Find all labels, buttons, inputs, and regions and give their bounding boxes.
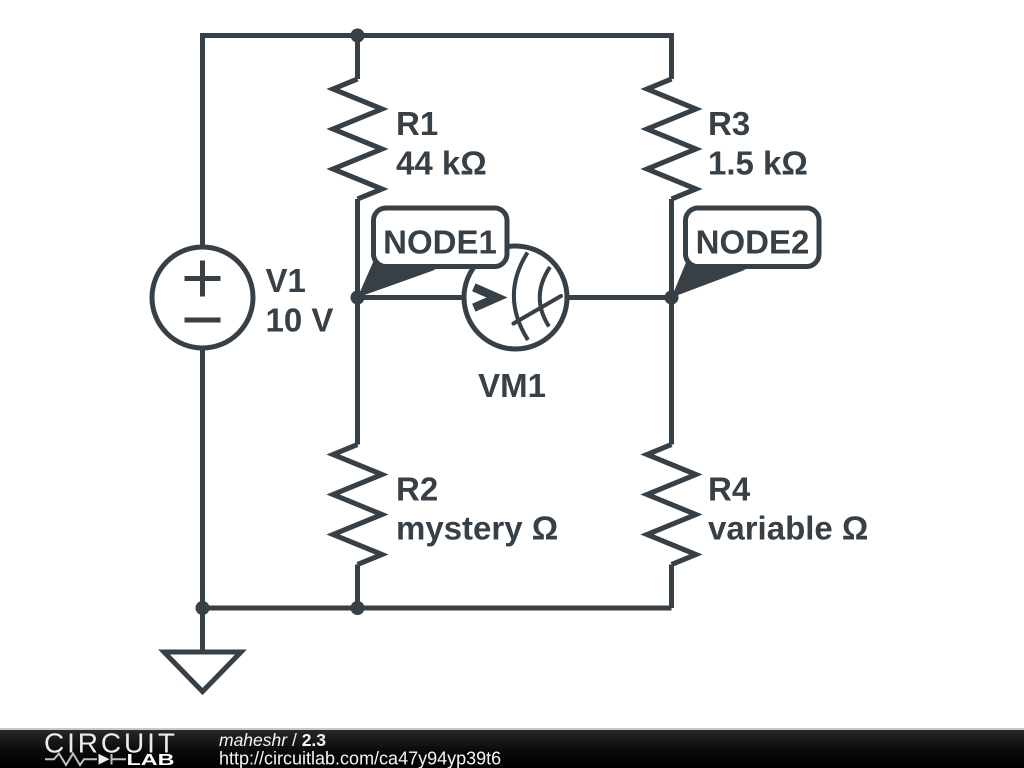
- voltmeter VM1: [464, 246, 567, 349]
- wire R1 top lead: [355, 33, 360, 79]
- svg-text:LAB: LAB: [127, 752, 175, 768]
- svg-text:http://circuitlab.com/ca47y94y: http://circuitlab.com/ca47y94yp39t6: [219, 748, 501, 768]
- wire top rail: [203, 33, 672, 38]
- svg-text:R2: R2: [396, 471, 438, 508]
- wire R3 top lead: [669, 33, 674, 79]
- node junction dot top: [351, 29, 365, 43]
- svg-text:R3: R3: [708, 105, 750, 142]
- CircuitLab logo resistor-diode glyph: [45, 754, 126, 766]
- svg-text:R1: R1: [396, 105, 438, 142]
- svg-text:mystery Ω: mystery Ω: [396, 510, 558, 547]
- wire bottom rail: [200, 606, 672, 611]
- resistor R4: [647, 445, 696, 565]
- wire R1 bottom lead: [355, 199, 360, 298]
- ground: [164, 652, 241, 692]
- svg-text:10 V: 10 V: [266, 302, 334, 339]
- node NODE2 flag: [672, 208, 820, 298]
- wire node1 to voltmeter: [358, 295, 467, 300]
- resistor R2: [333, 445, 382, 565]
- node NODE1 flag: [358, 208, 508, 298]
- wire R4 top lead: [669, 298, 674, 445]
- wire voltmeter to node2: [565, 295, 672, 300]
- svg-text:1.5 kΩ: 1.5 kΩ: [708, 145, 808, 182]
- node junction dot bottom center: [351, 601, 365, 615]
- voltage source V1: [152, 247, 253, 348]
- svg-text:VM1: VM1: [478, 367, 546, 404]
- resistor R1: [333, 79, 382, 199]
- wire R2 bottom lead: [355, 565, 360, 609]
- svg-text:R4: R4: [708, 471, 751, 508]
- wire R2 top lead: [355, 298, 360, 445]
- node NODE1 junction dot: [351, 291, 365, 305]
- svg-text:maheshr / 2.3: maheshr / 2.3: [219, 730, 326, 750]
- svg-text:V1: V1: [266, 262, 306, 299]
- wire R4 bottom lead: [669, 565, 674, 609]
- wire left rail upper: [200, 33, 205, 248]
- wire R3 bottom lead: [669, 199, 674, 298]
- svg-text:44 kΩ: 44 kΩ: [396, 145, 487, 182]
- svg-text:variable Ω: variable Ω: [708, 510, 868, 547]
- resistor R3: [647, 79, 696, 199]
- node junction dot bottom left: [196, 601, 210, 615]
- wire left rail lower: [200, 347, 205, 608]
- svg-text:NODE1: NODE1: [383, 224, 497, 261]
- node NODE2 junction dot: [665, 291, 679, 305]
- svg-text:NODE2: NODE2: [696, 224, 810, 261]
- wire ground stem: [200, 608, 205, 653]
- footer bar: [0, 728, 1024, 768]
